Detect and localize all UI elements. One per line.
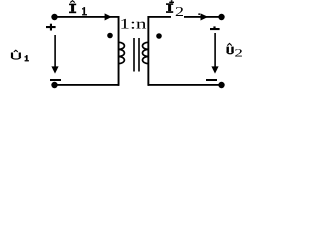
inductor L2 coil arcs (143, 42, 149, 63)
wire bottom-right (148, 84, 222, 86)
wire top-right segment a (148, 16, 171, 18)
voltage arrow U1 head (51, 66, 58, 73)
wire top-left (left terminal to primary top corner) (54, 16, 119, 18)
label I2 hat (169, 0, 174, 3)
minus sign left port (50, 79, 61, 81)
label I1 glyph I (69, 4, 76, 14)
label U1 subscript 1 (25, 55, 29, 61)
current arrow I2 head (201, 13, 209, 20)
label U1 hat (14, 50, 18, 52)
voltage arrow U2 head (211, 66, 218, 73)
plus sign left port (46, 24, 56, 31)
terminal dot right-top (218, 14, 224, 20)
transformer core line 1 (133, 38, 135, 72)
voltage arrow U2 line (214, 33, 216, 67)
svg-text:2: 2 (234, 48, 243, 60)
transformer core line 2 (138, 38, 140, 72)
wire top-right segment b (184, 16, 222, 18)
terminal dot left-bottom (51, 82, 57, 88)
minus sign right port (206, 79, 217, 81)
plus sign right port (210, 26, 220, 30)
terminal dot left-top (51, 14, 57, 20)
polarity dot secondary (156, 33, 162, 39)
current arrow I1 head (105, 13, 112, 20)
secondary winding vertical lead (147, 16, 149, 86)
inductor L1 coil arcs (119, 42, 125, 63)
label I1 hat (70, 1, 75, 3)
wire bottom-left (54, 84, 119, 86)
voltage arrow U1 line (54, 35, 56, 67)
label U2 glyph U (227, 47, 234, 54)
label U1 glyph U (11, 53, 21, 60)
label I2 glyph I (166, 3, 173, 13)
primary winding vertical lead (118, 16, 120, 86)
polarity dot primary (107, 33, 113, 39)
terminal dot right-bottom (218, 82, 224, 88)
svg-text:1:n: 1:n (119, 17, 147, 33)
label I1 subscript 1 (82, 7, 87, 15)
svg-text:2: 2 (175, 4, 184, 19)
label U2 hat (227, 43, 231, 45)
